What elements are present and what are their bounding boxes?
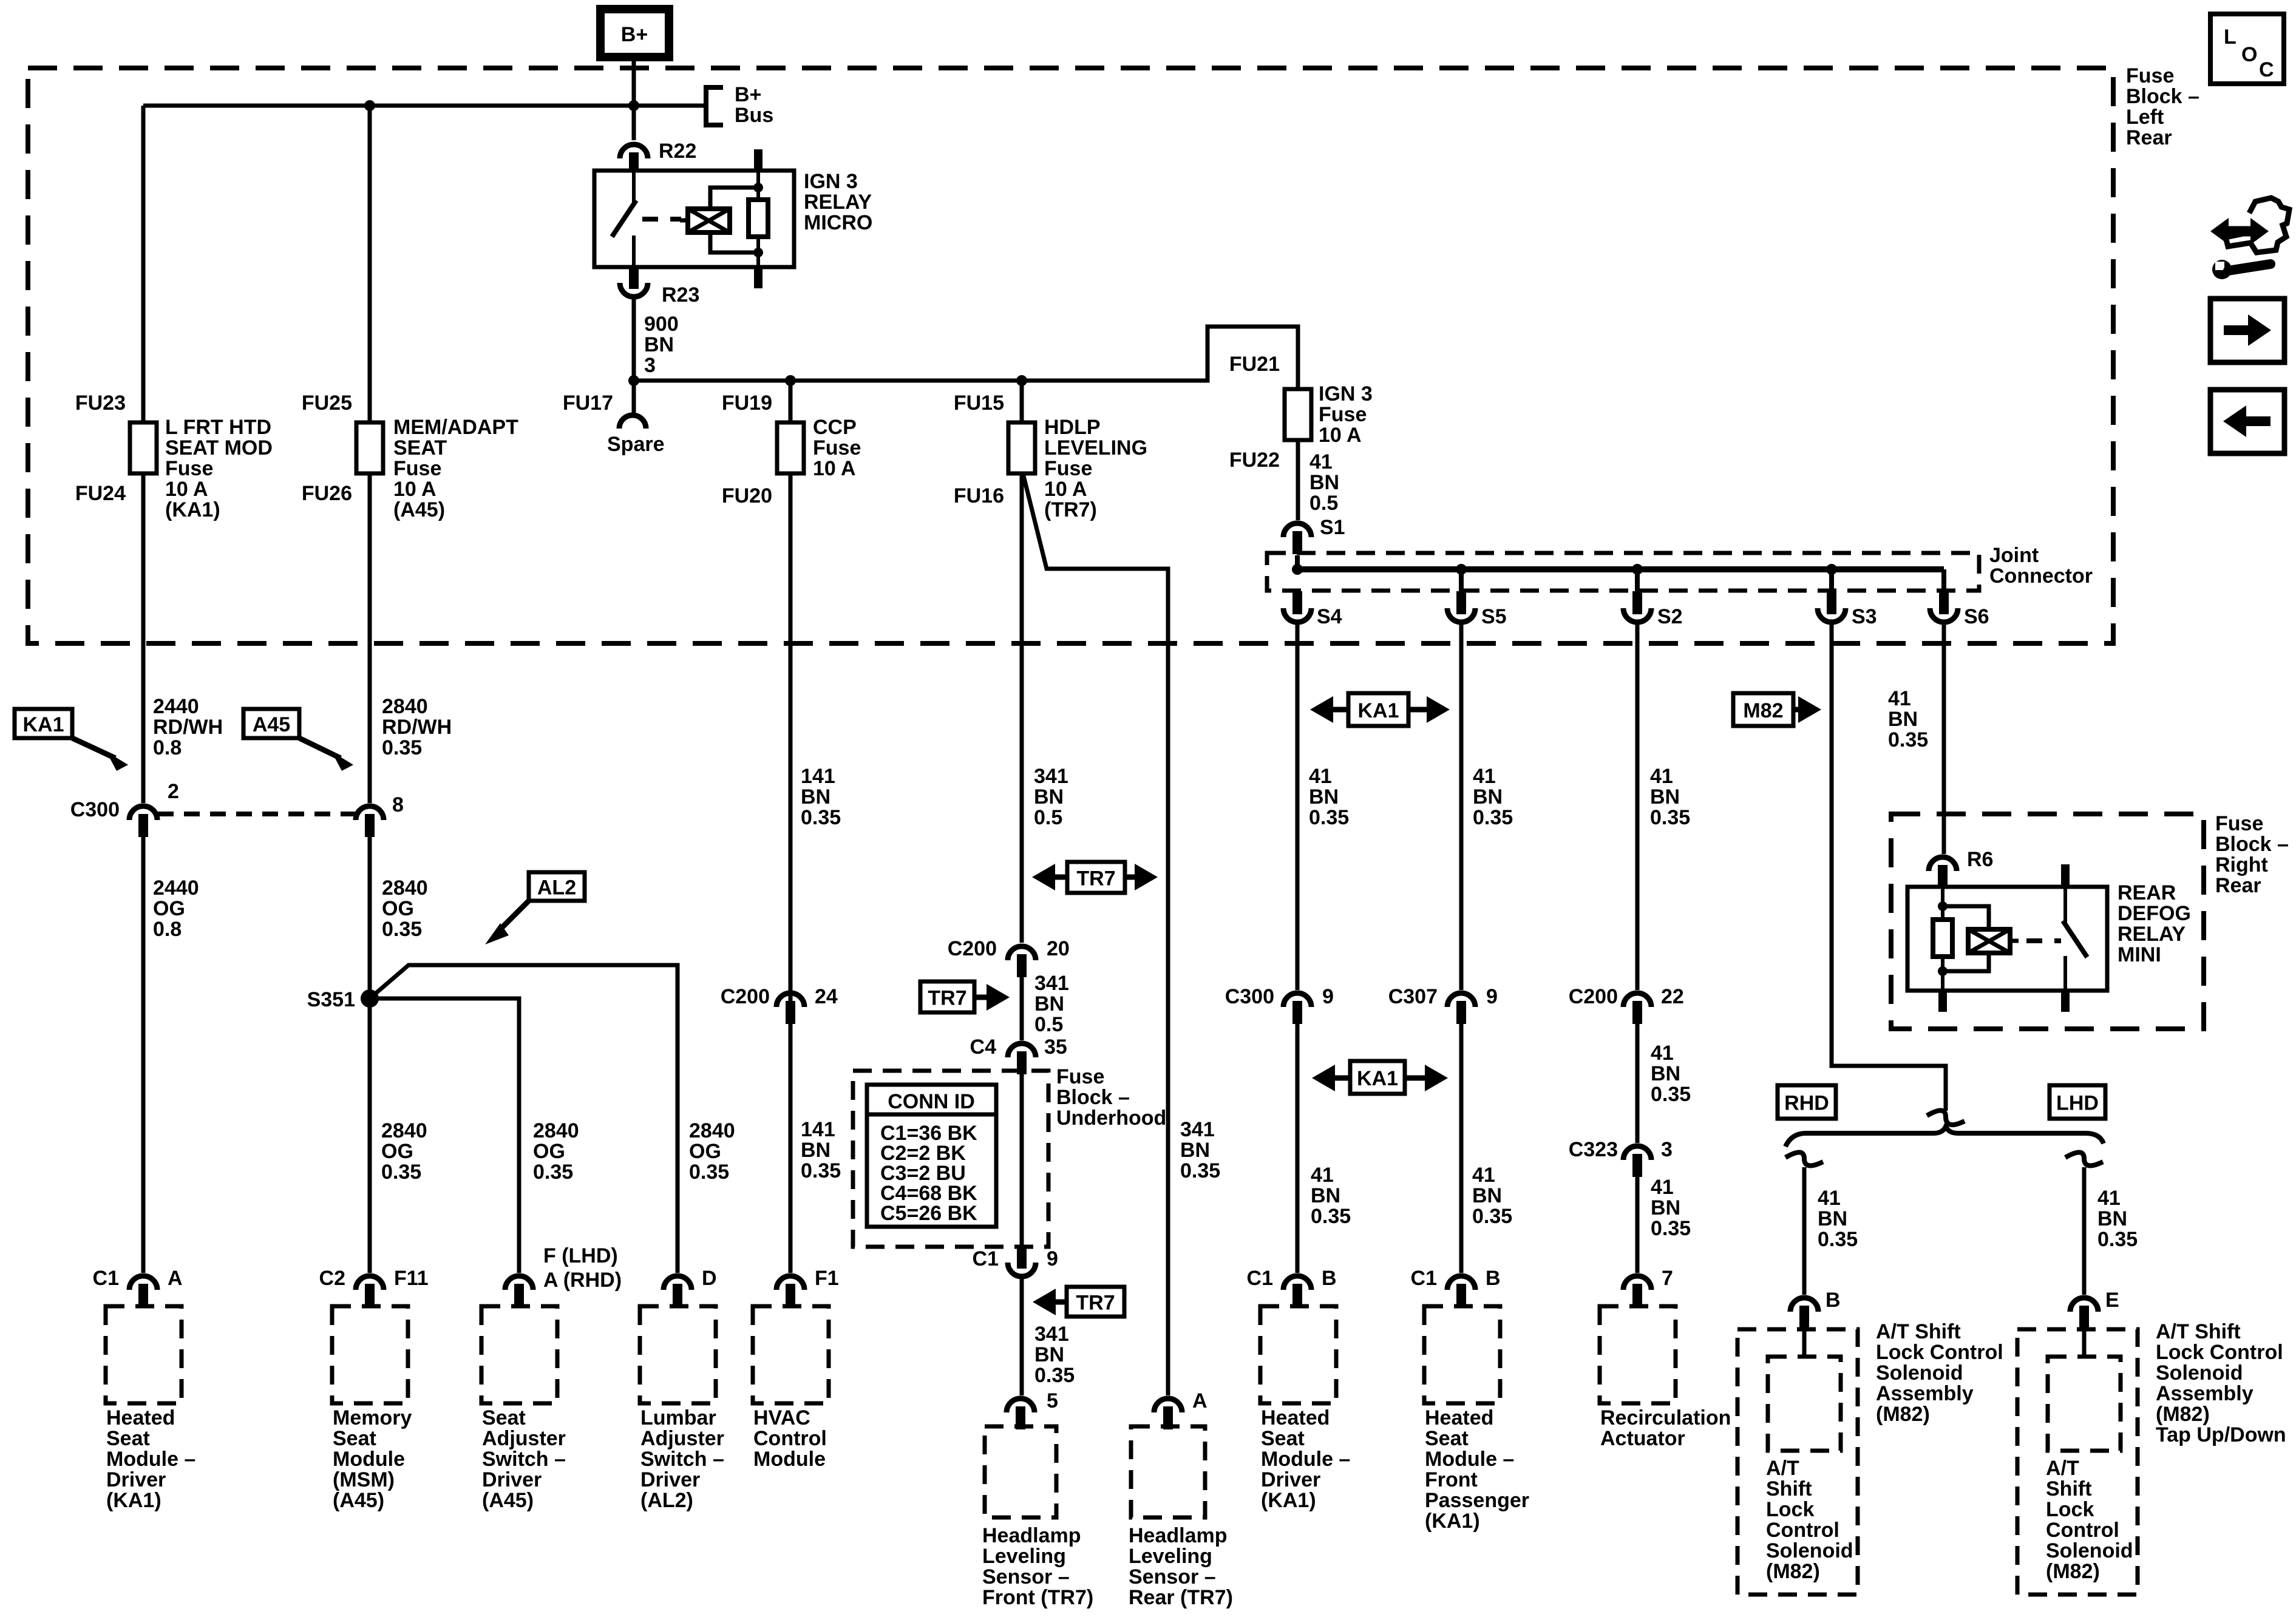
svg-text:A (RHD): A (RHD) xyxy=(543,1269,622,1292)
fuse block left rear enclosure xyxy=(28,68,2113,643)
svg-text:C2: C2 xyxy=(319,1267,345,1290)
B+ Bus bracket xyxy=(706,87,723,125)
fuse FU19/FU20 CCP xyxy=(777,422,804,473)
connector C1 pin 9 xyxy=(1008,1246,1036,1276)
svg-text:8: 8 xyxy=(392,793,404,816)
label 41 BN 0.35 s2 low xyxy=(1651,1176,1691,1240)
svg-text:R22: R22 xyxy=(659,140,696,163)
svg-text:SEAT MOD: SEAT MOD xyxy=(165,436,273,459)
wire S5 to C307-9 xyxy=(1459,625,1464,990)
svg-text:BN: BN xyxy=(1309,471,1339,494)
label C200 22 xyxy=(1569,985,1618,1008)
svg-text:CONN ID: CONN ID xyxy=(888,1090,975,1113)
arrow KA1 left lower xyxy=(1312,1065,1350,1091)
svg-text:Driver: Driver xyxy=(1261,1468,1320,1491)
svg-text:Block –: Block – xyxy=(2215,833,2289,856)
svg-text:341: 341 xyxy=(1034,765,1068,788)
relay internal resistor xyxy=(749,200,768,237)
svg-text:(MSM): (MSM) xyxy=(333,1468,395,1491)
svg-text:Lock Control: Lock Control xyxy=(1876,1341,2003,1364)
svg-text:SEAT: SEAT xyxy=(393,436,447,459)
label FU20 xyxy=(722,484,772,507)
svg-text:341: 341 xyxy=(1034,972,1069,995)
label pin 5 xyxy=(1047,1389,1058,1412)
svg-text:C200: C200 xyxy=(948,937,997,960)
label C307 xyxy=(1388,985,1438,1008)
label module AT shift lock control solenoid RHD side xyxy=(1876,1320,2003,1426)
svg-text:LHD: LHD xyxy=(2056,1092,2099,1115)
svg-text:Rear (TR7): Rear (TR7) xyxy=(1129,1586,1233,1609)
svg-text:S5: S5 xyxy=(1481,605,1507,628)
module AT shift lock control solenoid LHD inner box xyxy=(2048,1357,2121,1451)
svg-text:RHD: RHD xyxy=(1784,1092,1829,1115)
label FU16 xyxy=(954,484,1004,507)
svg-text:R6: R6 xyxy=(1967,848,1993,871)
module AT shift lock control solenoid LHD outer box xyxy=(2017,1329,2138,1595)
svg-text:F1: F1 xyxy=(815,1267,839,1290)
label REAR DEFOG RELAY MINI xyxy=(2118,881,2191,966)
label headlamp leveling sensor rear xyxy=(1129,1524,1233,1609)
svg-text:A/T: A/T xyxy=(1766,1457,1799,1480)
arrow A45 to W2 xyxy=(299,738,353,771)
label C1 module heated seat module driver 2 xyxy=(1247,1267,1273,1290)
label pin 22 xyxy=(1661,985,1684,1008)
svg-text:Seat: Seat xyxy=(1261,1427,1305,1450)
net tag LHD xyxy=(2050,1085,2105,1119)
label Spare xyxy=(607,433,665,456)
svg-text:Lock Control: Lock Control xyxy=(2156,1341,2283,1364)
svg-text:B: B xyxy=(1486,1267,1501,1290)
wire S6 to R6 xyxy=(1942,625,1946,854)
svg-text:Adjuster: Adjuster xyxy=(640,1427,724,1450)
svg-text:Lock: Lock xyxy=(2046,1498,2094,1521)
label S6 xyxy=(1964,605,1989,628)
arrow AL2 to lumbar wire xyxy=(485,901,529,944)
svg-text:Left: Left xyxy=(2126,106,2164,129)
svg-text:Fuse: Fuse xyxy=(813,436,861,459)
label module heated seat module driver xyxy=(106,1406,195,1512)
svg-text:HDLP: HDLP xyxy=(1044,416,1101,439)
svg-text:Actuator: Actuator xyxy=(1600,1427,1685,1450)
wire joint bus drop S6 xyxy=(1941,569,1946,592)
arrow TR7 left lower xyxy=(1033,1289,1067,1315)
label S3 xyxy=(1852,605,1877,628)
relay coil loop wiring xyxy=(710,188,758,253)
junction S5 xyxy=(1456,564,1467,575)
svg-text:0.35: 0.35 xyxy=(1651,1217,1691,1240)
net tag KA1 upper xyxy=(1348,693,1408,726)
arrow KA1 left upper xyxy=(1310,696,1348,723)
label FU24 xyxy=(75,482,126,505)
wire W4 CCP to HVAC xyxy=(789,381,793,1273)
fuse FU25/FU26 MEM/ADAPT SEAT xyxy=(356,422,383,473)
label pin F LHD xyxy=(543,1244,618,1267)
svg-text:41: 41 xyxy=(1311,1164,1334,1187)
svg-text:C5=26 BK: C5=26 BK xyxy=(880,1202,977,1225)
svg-text:Lumbar: Lumbar xyxy=(640,1406,716,1429)
svg-text:Control: Control xyxy=(1766,1519,1839,1542)
svg-text:0.35: 0.35 xyxy=(1472,1205,1512,1228)
label C300 xyxy=(70,798,120,821)
junction B+ bus at W2 xyxy=(364,100,375,111)
svg-text:22: 22 xyxy=(1661,985,1684,1008)
label S2 xyxy=(1657,605,1683,628)
svg-text:TR7: TR7 xyxy=(928,987,966,1010)
svg-text:0.5: 0.5 xyxy=(1034,1013,1063,1036)
svg-text:OG: OG xyxy=(381,1140,413,1163)
wire W5 through underhood fuse block xyxy=(1020,1074,1024,1247)
svg-text:2840: 2840 xyxy=(533,1119,579,1142)
label pin 35 xyxy=(1044,1036,1067,1059)
module AT shift lock control solenoid RHD inner box xyxy=(1768,1357,1841,1451)
svg-text:L FRT HTD: L FRT HTD xyxy=(165,416,271,439)
svg-text:Memory: Memory xyxy=(333,1406,412,1429)
label wire 2840 OG 0.35 msm xyxy=(381,1119,427,1184)
net tag RHD xyxy=(1778,1085,1836,1119)
svg-text:FU17: FU17 xyxy=(563,392,613,415)
label wire 2840 RD/WH 0.35 xyxy=(382,695,452,759)
svg-text:(M82): (M82) xyxy=(1766,1560,1820,1583)
label S351 xyxy=(307,988,355,1011)
label pin 20 xyxy=(1047,937,1070,960)
svg-text:C200: C200 xyxy=(1569,985,1618,1008)
arrow TR7 left xyxy=(1032,864,1067,890)
module seat adjuster switch driver box xyxy=(481,1306,557,1403)
connector S4 xyxy=(1283,591,1311,622)
connector headlamp front pin 5 xyxy=(1007,1398,1034,1429)
svg-text:9: 9 xyxy=(1322,985,1334,1008)
wire W5 to headlamp front sensor xyxy=(1020,1278,1024,1395)
svg-text:Lock: Lock xyxy=(1766,1498,1814,1521)
svg-text:Heated: Heated xyxy=(1425,1406,1493,1429)
svg-text:Recirculation: Recirculation xyxy=(1600,1406,1731,1429)
svg-text:Seat: Seat xyxy=(333,1427,376,1450)
connector module lumbar adjuster switch driver xyxy=(664,1276,691,1307)
svg-text:Solenoid: Solenoid xyxy=(1766,1539,1853,1562)
svg-text:Module –: Module – xyxy=(106,1448,195,1471)
label R6 xyxy=(1967,848,1993,871)
wire C300-9 to heated seat driver xyxy=(1296,1024,1300,1273)
label B+ Bus xyxy=(735,83,773,127)
svg-text:Assembly: Assembly xyxy=(1876,1382,1974,1405)
label module recirculation actuator xyxy=(1600,1406,1731,1450)
svg-text:Fuse: Fuse xyxy=(393,457,441,480)
label HDLP LEVELING fuse xyxy=(1044,416,1147,521)
module lumbar adjuster switch driver box xyxy=(640,1306,716,1403)
svg-text:R23: R23 xyxy=(662,283,699,307)
svg-text:0.35: 0.35 xyxy=(381,1161,421,1184)
svg-text:Module –: Module – xyxy=(1425,1448,1514,1471)
svg-text:Shift: Shift xyxy=(2046,1477,2092,1500)
arrow KA1 right lower xyxy=(1405,1065,1448,1091)
svg-text:0.35: 0.35 xyxy=(1888,728,1928,751)
svg-text:C300: C300 xyxy=(1225,985,1274,1008)
svg-text:41: 41 xyxy=(1472,1164,1495,1187)
svg-text:OG: OG xyxy=(689,1140,721,1163)
label 41 BN 0.35 s5 low xyxy=(1472,1164,1512,1228)
connector S6 xyxy=(1930,591,1958,622)
svg-text:7: 7 xyxy=(1662,1267,1673,1290)
svg-text:FU19: FU19 xyxy=(722,392,772,415)
svg-text:BN: BN xyxy=(1651,1196,1680,1219)
svg-text:Seat: Seat xyxy=(1425,1427,1469,1450)
label pin A RHD xyxy=(543,1269,622,1292)
svg-text:AL2: AL2 xyxy=(537,876,576,900)
svg-text:341: 341 xyxy=(1180,1118,1215,1141)
label pin D module lumbar adjuster switch driver xyxy=(702,1267,717,1290)
svg-text:(AL2): (AL2) xyxy=(640,1489,693,1512)
svg-text:BN: BN xyxy=(1034,785,1064,808)
module memory seat module box xyxy=(332,1306,408,1403)
svg-text:BN: BN xyxy=(1818,1207,1847,1230)
svg-text:BN: BN xyxy=(1472,1184,1502,1207)
svg-text:141: 141 xyxy=(801,765,835,788)
label IGN 3 RELAY MICRO xyxy=(804,170,872,234)
label wire 341 BN 0.35 rear xyxy=(1180,1118,1220,1182)
svg-text:Spare: Spare xyxy=(607,433,665,456)
svg-text:Tap Up/Down: Tap Up/Down xyxy=(2156,1423,2286,1446)
svg-text:BN: BN xyxy=(1650,785,1680,808)
wire LHD branch xyxy=(2082,1167,2087,1295)
svg-text:BN: BN xyxy=(801,785,830,808)
label C2 module memory seat module xyxy=(319,1267,345,1290)
label wire 2440 OG 0.8 xyxy=(153,876,199,941)
label 41 BN 0.35 RHD xyxy=(1818,1187,1858,1251)
connector module HVAC control module xyxy=(776,1276,804,1307)
label C1 module heated seat module driver xyxy=(93,1267,119,1290)
svg-text:REAR: REAR xyxy=(2118,881,2176,904)
svg-text:LEVELING: LEVELING xyxy=(1044,436,1147,459)
label FU17 xyxy=(563,392,613,415)
label pin 3 xyxy=(1661,1138,1673,1161)
svg-text:0.35: 0.35 xyxy=(1180,1159,1220,1182)
svg-text:C307: C307 xyxy=(1388,985,1438,1008)
label FU21 xyxy=(1229,353,1280,376)
svg-text:BN: BN xyxy=(1309,785,1339,808)
svg-text:A/T Shift: A/T Shift xyxy=(1876,1320,1961,1343)
svg-text:Control: Control xyxy=(753,1427,827,1450)
svg-text:Block –: Block – xyxy=(1056,1086,1130,1109)
label C300 9 xyxy=(1225,985,1274,1008)
connector C200 pin 20 xyxy=(1008,946,1036,977)
svg-text:Seat: Seat xyxy=(106,1427,150,1450)
net tag TR7 mid xyxy=(1067,862,1125,893)
label FU26 xyxy=(302,482,352,505)
svg-text:A: A xyxy=(168,1267,183,1290)
module headlamp leveling sensor front box xyxy=(985,1426,1056,1517)
label fuse block left rear xyxy=(2126,64,2199,149)
svg-text:A/T Shift: A/T Shift xyxy=(2156,1320,2241,1343)
svg-text:FU24: FU24 xyxy=(75,482,126,505)
label joint connector xyxy=(1989,544,2093,588)
svg-text:Fuse: Fuse xyxy=(165,457,213,480)
svg-text:Switch –: Switch – xyxy=(482,1448,566,1471)
label C1 9 xyxy=(973,1247,999,1270)
label pin A module heated seat module driver xyxy=(168,1267,183,1290)
label pin 24 xyxy=(815,985,838,1008)
fuse FU23/FU24 L FRT HTD SEAT MOD xyxy=(130,422,157,473)
label headlamp leveling sensor front xyxy=(982,1524,1093,1609)
battery terminal B+ xyxy=(600,9,669,57)
connector C200 pin 24 xyxy=(776,993,804,1024)
svg-text:B+: B+ xyxy=(621,23,648,46)
svg-text:Fuse: Fuse xyxy=(2215,812,2263,835)
svg-text:Bus: Bus xyxy=(735,104,773,127)
svg-text:BN: BN xyxy=(1888,708,1918,731)
svg-text:BN: BN xyxy=(1034,1343,1064,1366)
net tag A45 xyxy=(243,709,299,738)
label C1 module heated seat module front passenger xyxy=(1411,1267,1437,1290)
svg-text:(M82): (M82) xyxy=(1876,1403,1930,1426)
label FU25 xyxy=(302,392,352,415)
relay R6 REAR DEFOG RELAY MINI box xyxy=(1907,887,2107,991)
wire FU16 branch to headlamp rear xyxy=(1024,476,1168,1395)
label C200 20 xyxy=(948,937,997,960)
label fuse block right rear xyxy=(2215,812,2289,897)
label wire 341 BN 0.5 mid xyxy=(1034,972,1069,1036)
label IGN 3 fuse xyxy=(1319,382,1373,447)
wire stub to FU17 spare xyxy=(632,381,636,413)
svg-text:0.35: 0.35 xyxy=(1650,806,1690,829)
svg-text:C1: C1 xyxy=(973,1247,999,1270)
svg-text:C1: C1 xyxy=(1411,1267,1437,1290)
svg-text:S1: S1 xyxy=(1320,516,1345,539)
label C323 xyxy=(1569,1138,1618,1161)
svg-text:C323: C323 xyxy=(1569,1138,1618,1161)
label pin B module heated seat module driver 2 xyxy=(1322,1267,1337,1290)
label FU22 xyxy=(1229,449,1280,472)
connector R22 xyxy=(620,144,648,175)
relay R6 switch xyxy=(2061,864,2087,1012)
svg-text:M82: M82 xyxy=(1743,699,1783,722)
label 41 BN 0.35 s4 xyxy=(1309,765,1349,829)
wire S351 branch to seat adjuster switch xyxy=(370,998,519,1273)
svg-text:Sensor –: Sensor – xyxy=(1129,1565,1216,1588)
svg-text:0.35: 0.35 xyxy=(1309,806,1349,829)
wire S3 to brace xyxy=(1832,625,1946,1111)
module AT shift lock control solenoid RHD outer box xyxy=(1737,1329,1858,1595)
svg-text:FU26: FU26 xyxy=(302,482,352,505)
connector C300 pin 2 xyxy=(129,806,157,837)
label pin F11 module memory seat module xyxy=(394,1267,429,1290)
svg-text:2840: 2840 xyxy=(382,876,428,900)
svg-text:0.35: 0.35 xyxy=(2097,1228,2138,1251)
svg-text:RELAY: RELAY xyxy=(804,191,872,214)
svg-text:A: A xyxy=(1192,1389,1207,1412)
label pin E xyxy=(2105,1289,2119,1312)
svg-text:24: 24 xyxy=(815,985,838,1008)
svg-text:Sensor –: Sensor – xyxy=(982,1565,1070,1588)
svg-text:2840: 2840 xyxy=(689,1119,735,1142)
label pin A xyxy=(1192,1389,1207,1412)
junction B+ bus at W3 xyxy=(628,100,639,111)
svg-text:(A45): (A45) xyxy=(333,1489,384,1512)
svg-text:S3: S3 xyxy=(1852,605,1877,628)
label module HVAC control module xyxy=(753,1406,827,1471)
connector module AT shift lock control solenoid LHD pin xyxy=(2070,1298,2098,1329)
connector module heated seat module driver 2 xyxy=(1283,1276,1311,1307)
svg-text:FU23: FU23 xyxy=(75,392,126,415)
svg-text:MICRO: MICRO xyxy=(804,211,872,234)
label FU19 xyxy=(722,392,772,415)
svg-text:D: D xyxy=(702,1267,717,1290)
svg-text:Module –: Module – xyxy=(1261,1448,1350,1471)
icon vehicle outline with arrows and wrench xyxy=(2210,198,2289,279)
svg-text:Seat: Seat xyxy=(482,1406,526,1429)
svg-text:C1: C1 xyxy=(93,1267,119,1290)
svg-text:Front (TR7): Front (TR7) xyxy=(982,1586,1093,1609)
svg-text:Driver: Driver xyxy=(106,1468,166,1491)
svg-text:Assembly: Assembly xyxy=(2156,1382,2254,1405)
wire W2 FU25 branch xyxy=(368,106,372,803)
label fuse block underhood xyxy=(1056,1065,1166,1130)
svg-text:Joint: Joint xyxy=(1989,544,2039,567)
connector S5 xyxy=(1447,591,1475,622)
label wire 2840 OG 0.35 xyxy=(382,876,428,941)
svg-text:(KA1): (KA1) xyxy=(1425,1510,1480,1533)
wire bus1 B+ horizontal xyxy=(143,104,706,108)
svg-text:O: O xyxy=(2241,43,2257,66)
svg-text:341: 341 xyxy=(1034,1323,1069,1346)
svg-text:2440: 2440 xyxy=(153,695,199,718)
svg-text:Fuse: Fuse xyxy=(1056,1065,1104,1088)
connector S2 xyxy=(1623,591,1651,622)
svg-text:TR7: TR7 xyxy=(1076,867,1115,890)
arrow M82 right xyxy=(1793,696,1821,723)
svg-text:KA1: KA1 xyxy=(1357,1067,1398,1090)
wire W5 HDLP upper xyxy=(1020,381,1024,943)
CONN ID table xyxy=(867,1085,996,1227)
net tag M82 xyxy=(1733,693,1793,726)
connector module heated seat module front passenger xyxy=(1447,1276,1475,1307)
net tag TR7 lower xyxy=(1067,1287,1124,1317)
fuse FU15/FU16 HDLP LEVELING xyxy=(1008,422,1035,473)
svg-text:141: 141 xyxy=(801,1118,835,1141)
label wire 2440 RD/WH 0.8 xyxy=(153,695,223,759)
arrow KA1 to W1 xyxy=(72,738,128,771)
svg-text:(A45): (A45) xyxy=(482,1489,534,1512)
connector module recirculation actuator xyxy=(1623,1276,1651,1307)
svg-text:BN: BN xyxy=(1311,1184,1340,1207)
relay R6 coil loop xyxy=(1943,906,1989,971)
svg-text:10 A: 10 A xyxy=(393,478,436,501)
connector C200 pin 22 xyxy=(1623,993,1651,1024)
svg-text:DEFOG: DEFOG xyxy=(2118,902,2191,925)
svg-text:Solenoid: Solenoid xyxy=(2046,1539,2133,1562)
label C4 xyxy=(970,1036,997,1059)
label 41 BN 0.35 s5 xyxy=(1473,765,1513,829)
svg-text:CCP: CCP xyxy=(813,416,857,439)
junction bus2 at FU15 xyxy=(1016,375,1027,386)
svg-text:20: 20 xyxy=(1047,937,1070,960)
wire W1 to heated seat module xyxy=(141,837,146,1273)
label 41 BN 0.35 s4 low xyxy=(1311,1164,1351,1228)
svg-text:Right: Right xyxy=(2215,853,2268,876)
svg-text:B+: B+ xyxy=(735,83,761,106)
svg-text:(KA1): (KA1) xyxy=(106,1489,161,1512)
fuse block right rear dashed enclosure xyxy=(1891,814,2204,1029)
connector S1 xyxy=(1283,523,1311,554)
svg-text:2840: 2840 xyxy=(382,695,428,718)
wire C307 to heated seat passenger xyxy=(1459,1024,1464,1273)
connector C300 pin 8 xyxy=(356,806,384,837)
svg-text:10 A: 10 A xyxy=(813,457,856,480)
svg-text:0.8: 0.8 xyxy=(153,918,182,941)
label module seat adjuster switch driver xyxy=(482,1406,566,1512)
svg-text:FU22: FU22 xyxy=(1229,449,1280,472)
wire bus2 ignition feed xyxy=(634,327,1298,389)
svg-text:KA1: KA1 xyxy=(1357,699,1399,722)
